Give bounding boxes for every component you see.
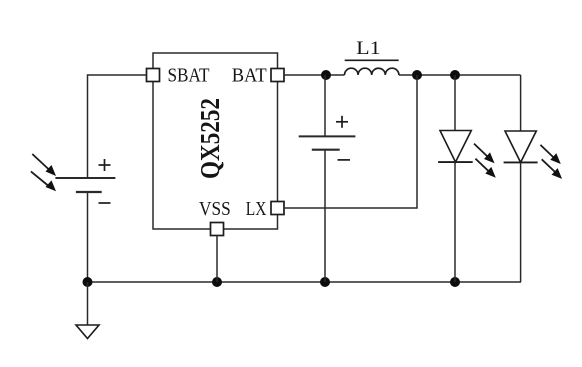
LED D1 emission arrow 1 — [474, 144, 495, 164]
junction dot bottom-left — [83, 277, 93, 287]
wire rail corner to LED2 anode — [520, 75, 522, 131]
junction dot battery bottom — [320, 277, 330, 287]
wire solar cell to bottom rail — [87, 192, 89, 282]
LED D1 emission arrow 2 — [475, 159, 495, 178]
battery plus sign — [336, 116, 348, 128]
wire LX to riser — [284, 75, 417, 208]
battery minus sign — [338, 159, 351, 161]
svg-text:BAT: BAT — [232, 65, 267, 87]
wire battery bottom to rail — [324, 150, 326, 282]
LED D1 — [440, 131, 471, 163]
solar cell plates — [55, 178, 115, 192]
ground — [76, 325, 99, 339]
junction dot LX node — [412, 70, 422, 80]
junction dot LED1 bottom — [450, 277, 460, 287]
wire rail to battery top — [324, 75, 326, 136]
wire VSS to bottom rail — [216, 236, 218, 283]
wire ground stem — [87, 282, 89, 325]
LED D2 cathode bar — [504, 161, 538, 163]
solar light arrow 1 — [32, 154, 56, 176]
wire rail to LED1 anode — [454, 75, 456, 131]
svg-text:SBAT: SBAT — [168, 65, 210, 87]
pin SBAT — [147, 69, 160, 82]
IC U1 QX5252 body — [153, 53, 278, 229]
junction dot LED1 top — [450, 70, 460, 80]
solar cell plus sign — [99, 159, 111, 171]
inductor L1 bar — [345, 59, 399, 61]
LED D2 emission arrow 2 — [542, 159, 562, 179]
solar cell minus sign — [99, 202, 111, 204]
svg-text:LX: LX — [246, 198, 267, 220]
wire BAT to inductor — [284, 74, 345, 76]
svg-text:VSS: VSS — [199, 198, 231, 220]
wire LED1 cathode to bottom rail — [454, 162, 456, 282]
LED D1 cathode bar — [438, 161, 473, 163]
battery plates — [299, 136, 356, 149]
pin VSS — [211, 223, 224, 236]
LED D2 — [505, 131, 536, 162]
LED D2 emission arrow 1 — [540, 145, 560, 164]
bottom rail wire — [88, 281, 522, 283]
pin BAT — [271, 69, 284, 82]
svg-text:L1: L1 — [356, 38, 381, 59]
pin LX — [271, 202, 284, 215]
wire LED2 cathode to bottom rail — [520, 162, 522, 282]
junction dot battery top — [321, 70, 331, 80]
wire inductor to right corner — [399, 74, 521, 76]
solar light arrow 2 — [31, 171, 56, 191]
wire SBAT to left — [88, 75, 147, 178]
inductor L1 — [345, 68, 399, 75]
svg-text:QX5252: QX5252 — [195, 98, 225, 179]
junction dot VSS — [212, 277, 222, 287]
